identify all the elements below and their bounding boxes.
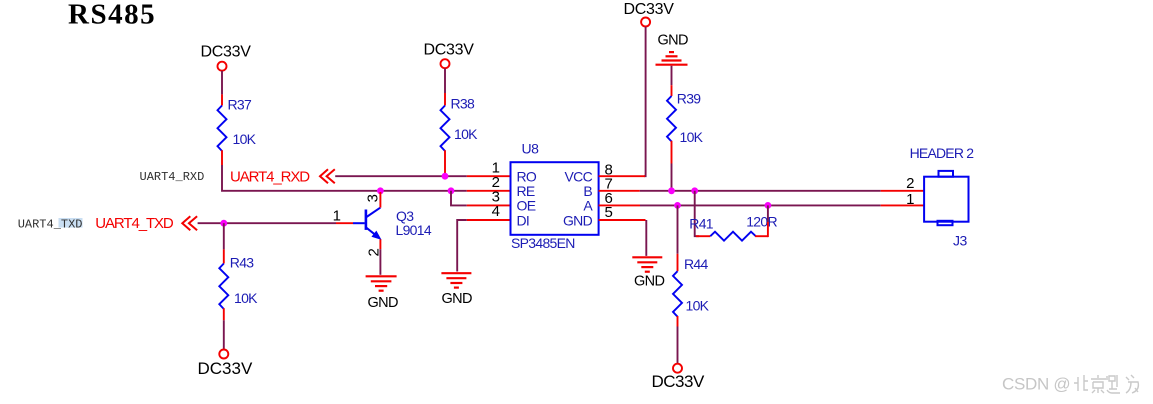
resistor R41 right pin vertical part: [767, 222, 769, 237]
pin stub B pin7: [599, 190, 640, 192]
svg-text:VCC: VCC: [565, 169, 593, 185]
svg-text:10K: 10K: [686, 298, 710, 314]
wire P1 to R37: [221, 71, 223, 95]
svg-text:1: 1: [906, 191, 914, 208]
wire R43 to P4: [223, 320, 225, 349]
chevron port arrow RXD: [320, 169, 335, 183]
resistor R37 body: [218, 106, 227, 152]
transistor Q3 collector pin: [379, 192, 381, 208]
svg-text:DI: DI: [517, 212, 530, 228]
svg-text:R44: R44: [684, 256, 708, 272]
svg-text:GND: GND: [634, 273, 665, 289]
wire RE to OE row: [451, 191, 467, 206]
svg-text:5: 5: [605, 204, 613, 221]
wire P3 down to VCC pin8: [644, 27, 646, 177]
pin stub DI pin4: [467, 219, 511, 221]
svg-text:DC33V: DC33V: [424, 42, 475, 59]
ground GND4 (pin5): [632, 257, 662, 271]
svg-text:2: 2: [906, 175, 914, 192]
resistor R38 pin top: [444, 93, 446, 106]
resistor R44 body: [673, 271, 682, 317]
wire TXD to Q3 base: [198, 222, 336, 224]
wire A row down to R44: [677, 205, 679, 253]
wire R44 to P5: [677, 327, 679, 364]
svg-text:DC33V: DC33V: [198, 359, 253, 378]
svg-text:UART4_RXD: UART4_RXD: [140, 170, 205, 184]
pin stub J3 pin1: [881, 204, 924, 206]
resistor R41 pin left: [696, 235, 710, 237]
transistor Q3 emitter arm: [367, 228, 378, 237]
resistor R37 pin top: [221, 94, 223, 105]
svg-text:UART4_RXD: UART4_RXD: [230, 168, 310, 185]
resistor R38 body: [441, 106, 450, 152]
svg-text:J3: J3: [953, 233, 968, 249]
power DC33V P3 circle: [641, 18, 650, 27]
connector J3 body: [924, 177, 968, 222]
svg-text:10K: 10K: [233, 131, 257, 147]
transistor Q3 base bar: [365, 210, 368, 230]
svg-text:UART4_TXD: UART4_TXD: [95, 215, 174, 232]
IC U8 body: [511, 162, 599, 235]
power DC33V P2 circle: [441, 59, 450, 68]
svg-text:GND: GND: [442, 291, 473, 307]
ground GND1 (Q3 emitter): [366, 276, 397, 290]
wire R37 down and right to RE row: [222, 165, 467, 191]
wire Q3 emitter to ground: [379, 249, 381, 275]
net label UART4_TXD (small gray): [59, 218, 83, 228]
svg-text:1: 1: [333, 207, 341, 224]
wire B row down to R41 left: [695, 191, 699, 236]
wire GND3 to R39: [671, 66, 673, 86]
resistor R43 pin bottom: [223, 308, 225, 320]
junction R39/B row: [668, 187, 675, 194]
wire DI to ground: [457, 220, 467, 272]
svg-text:A: A: [583, 198, 593, 214]
chevron port arrow TXD: [182, 216, 197, 230]
svg-text:10K: 10K: [234, 290, 258, 306]
junction RE/OE tie: [448, 187, 455, 194]
junction R38/RO row: [442, 173, 449, 180]
svg-text:GND: GND: [368, 295, 399, 311]
svg-text:OE: OE: [517, 198, 536, 214]
ground GND2 (DI): [441, 273, 471, 287]
wire TXD junction down to R43: [223, 223, 225, 249]
svg-text:HEADER 2: HEADER 2: [910, 145, 975, 161]
svg-text:10K: 10K: [680, 129, 704, 145]
svg-text:DC33V: DC33V: [652, 372, 705, 391]
resistor R44 pin bottom: [677, 316, 679, 327]
svg-text:R39: R39: [677, 91, 701, 107]
connector J3 bottom tab: [938, 221, 953, 225]
wire RXD row to RO pin: [335, 175, 467, 177]
svg-text:U8: U8: [522, 141, 540, 157]
junction R41/A row: [765, 202, 772, 209]
wire P2 to R38: [444, 68, 446, 93]
svg-text:DC33V: DC33V: [201, 44, 252, 61]
transistor Q3 base stub: [336, 222, 353, 224]
pin stub A pin6: [599, 204, 640, 206]
svg-text:3: 3: [365, 194, 382, 202]
pin stub RE pin2: [467, 190, 511, 192]
wire R41 right up to A row: [767, 205, 769, 222]
svg-text:GND: GND: [658, 33, 689, 49]
resistor R43 pin top: [223, 249, 225, 263]
junction Q3 collector on RE row: [377, 187, 384, 194]
pin stub OE pin3: [467, 204, 511, 206]
resistor R37 pin bottom: [221, 150, 223, 165]
resistor R41 pin right: [755, 235, 768, 237]
power DC33V P1 circle: [218, 62, 227, 71]
junction R41/B row: [691, 187, 698, 194]
pin stub J3 pin2: [881, 190, 924, 192]
resistor R39 pin top: [671, 85, 673, 96]
svg-text:RO: RO: [517, 169, 537, 185]
svg-text:RE: RE: [517, 183, 535, 199]
svg-text:R37: R37: [228, 97, 252, 113]
power DC33V P4 circle: [219, 350, 228, 359]
svg-text:R38: R38: [451, 96, 475, 112]
transistor Q3 emitter arrow: [372, 232, 380, 240]
pin stub RO pin1: [467, 175, 511, 177]
svg-text:R43: R43: [230, 255, 254, 271]
svg-text:UART4_TXD: UART4_TXD: [18, 217, 83, 231]
resistor R43 body: [219, 264, 228, 310]
resistor R41 body (horizontal): [710, 232, 756, 241]
resistor R39 body: [667, 96, 676, 142]
svg-text:B: B: [583, 183, 592, 199]
transistor Q3 base lead: [353, 222, 365, 224]
wire R39 to B row: [671, 164, 673, 191]
svg-text:10K: 10K: [454, 126, 478, 142]
junction TXD/R43: [220, 220, 227, 227]
svg-text:4: 4: [492, 203, 500, 220]
wire pin5 to ground: [645, 220, 647, 256]
svg-text:RS485: RS485: [68, 0, 156, 31]
connector J3 top tab: [939, 171, 954, 177]
junction R44/A row: [674, 202, 681, 209]
resistor R39 pin bottom: [671, 141, 673, 164]
wire B row to header: [640, 190, 881, 192]
pin stub GND pin5: [599, 219, 646, 221]
svg-text:120R: 120R: [746, 214, 777, 230]
svg-text:DC33V: DC33V: [624, 1, 675, 18]
resistor R38 pin bottom to RO row: [444, 150, 446, 176]
watermark chinese glyphs: [1074, 375, 1138, 393]
svg-text:L9014: L9014: [396, 222, 432, 238]
wire A row to header: [640, 204, 881, 206]
svg-text:GND: GND: [563, 212, 593, 228]
pin stub VCC pin8: [599, 175, 645, 177]
svg-text:SP3485EN: SP3485EN: [511, 235, 575, 251]
transistor Q3 collector arm: [367, 208, 381, 217]
resistor R44 pin top: [677, 254, 679, 271]
ground GND3 (flipped): [656, 52, 688, 65]
svg-text:R41: R41: [689, 215, 713, 231]
power DC33V P5 circle: [673, 364, 682, 373]
transistor Q3 emitter pin: [379, 239, 381, 249]
svg-text:CSDN @: CSDN @: [1002, 375, 1070, 394]
